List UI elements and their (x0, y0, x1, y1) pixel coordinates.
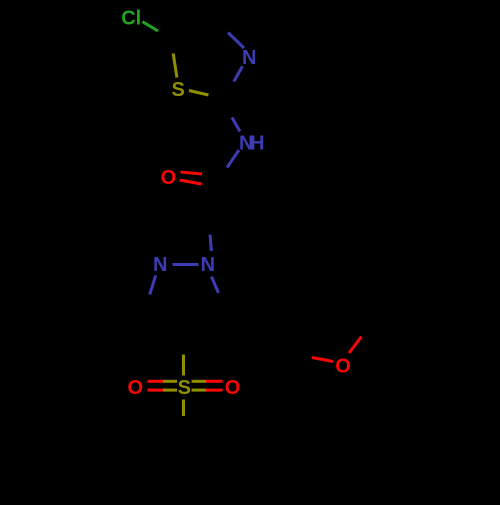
bond O-C ether right (oxygen half) (349, 337, 362, 354)
svg-text:O: O (225, 377, 241, 399)
bond N2-C3 pyrazole (nitrogen half) (150, 275, 156, 294)
svg-text:NH: NH (239, 132, 264, 154)
double bond C6=O carbonyl (oxygen halves) (181, 172, 203, 174)
svg-text:O: O (161, 167, 177, 189)
bond Cl-C5 (green half) (142, 22, 158, 31)
bond N3-C4 thiazole (nitrogen half) (228, 33, 244, 49)
bond C7-N1 pyrazole (nitrogen half) (210, 235, 211, 252)
double bond S=O left (sulfur halves) (163, 380, 177, 383)
svg-text:S: S (178, 377, 191, 399)
svg-text:O: O (335, 355, 351, 377)
bond NH-C6 carbonyl (NH half) (227, 150, 239, 168)
double bond S=O right (sulfur halves) (192, 380, 207, 383)
bond C2-NH amide (NH half) (232, 118, 240, 132)
bond N1-C5 pyrazole (nitrogen half) (212, 277, 219, 294)
svg-text:Cl: Cl (121, 8, 141, 30)
bond C-O ether left (oxygen half) (312, 358, 333, 362)
bond S1-C2 thiazole (sulfur half) (189, 91, 209, 96)
double bond S=O right (oxygen halves) (206, 380, 223, 383)
bond N1-N2 pyrazole (173, 263, 199, 266)
double bond S=O left (oxygen halves) (148, 380, 164, 383)
bond S-CH3 methyl (sulfur half) (182, 400, 185, 417)
svg-text:N: N (153, 254, 167, 276)
bond C4pz-S sulfonyl (sulfur half) (182, 355, 185, 376)
svg-text:O: O (128, 377, 144, 399)
svg-text:N: N (242, 47, 256, 69)
svg-text:N: N (201, 254, 215, 276)
bond C5-S1 thiazole (sulfur half) (173, 54, 177, 78)
bond C2-N3 thiazole (nitrogen half) (234, 66, 243, 81)
svg-text:S: S (172, 79, 185, 101)
